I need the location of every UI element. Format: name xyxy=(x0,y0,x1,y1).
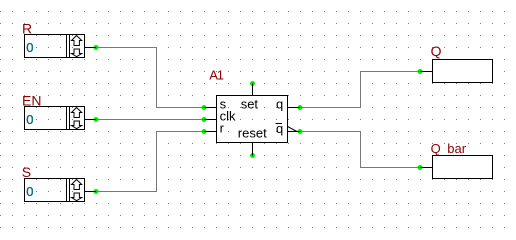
pin stub Q input xyxy=(420,71,433,73)
wire R to s pin xyxy=(96,48,204,108)
pin stub R output xyxy=(85,47,97,49)
svg-text:S: S xyxy=(22,164,31,180)
pin stub S output xyxy=(85,191,97,193)
node set xyxy=(250,81,255,86)
node qbar out xyxy=(298,129,303,134)
pin stub EN output xyxy=(85,119,97,121)
svg-text:R: R xyxy=(22,21,32,37)
svg-text:EN: EN xyxy=(22,93,41,109)
pin r stub xyxy=(204,131,217,133)
output probe Q_bar xyxy=(433,156,493,179)
output probe Q xyxy=(433,60,493,83)
node R out xyxy=(94,45,99,50)
label A1 xyxy=(209,68,224,83)
node clk in xyxy=(202,117,207,122)
pin s stub xyxy=(204,107,217,109)
input switch R xyxy=(25,35,85,58)
wire q to Q output xyxy=(300,72,420,108)
svg-text:0: 0 xyxy=(26,40,33,55)
svg-text:0: 0 xyxy=(26,112,33,127)
node reset xyxy=(250,153,255,158)
svg-text:set: set xyxy=(241,97,259,112)
svg-text:q: q xyxy=(276,97,283,112)
pin set stub xyxy=(252,84,254,96)
wire qbar to Q_bar output xyxy=(300,132,420,168)
wire S to r pin xyxy=(96,132,204,192)
input switch S xyxy=(25,179,85,202)
svg-text:0: 0 xyxy=(26,184,33,199)
pin clk stub xyxy=(204,119,217,121)
svg-text:Q: Q xyxy=(431,141,441,156)
svg-text:Q: Q xyxy=(431,43,442,59)
svg-text:r: r xyxy=(220,121,225,136)
pin qbar stub xyxy=(288,127,301,132)
flip-flop U A1 body xyxy=(217,96,288,143)
node q out xyxy=(298,105,303,110)
pin label qbar xyxy=(276,121,284,136)
input switch EN xyxy=(25,107,85,130)
node EN out xyxy=(94,117,99,122)
svg-text:reset: reset xyxy=(238,126,267,141)
node r in xyxy=(202,129,207,134)
wire EN to clk pin xyxy=(96,119,204,121)
node S out xyxy=(94,189,99,194)
pin reset stub xyxy=(252,143,254,156)
svg-text:1: 1 xyxy=(217,68,224,83)
pin stub Q_bar input xyxy=(420,167,433,169)
label Q_bar xyxy=(431,141,467,156)
node s in xyxy=(202,105,207,110)
pin q stub xyxy=(288,107,301,109)
node Q_bar in xyxy=(418,165,423,170)
svg-text:bar: bar xyxy=(447,141,466,156)
node Q in xyxy=(418,69,423,74)
